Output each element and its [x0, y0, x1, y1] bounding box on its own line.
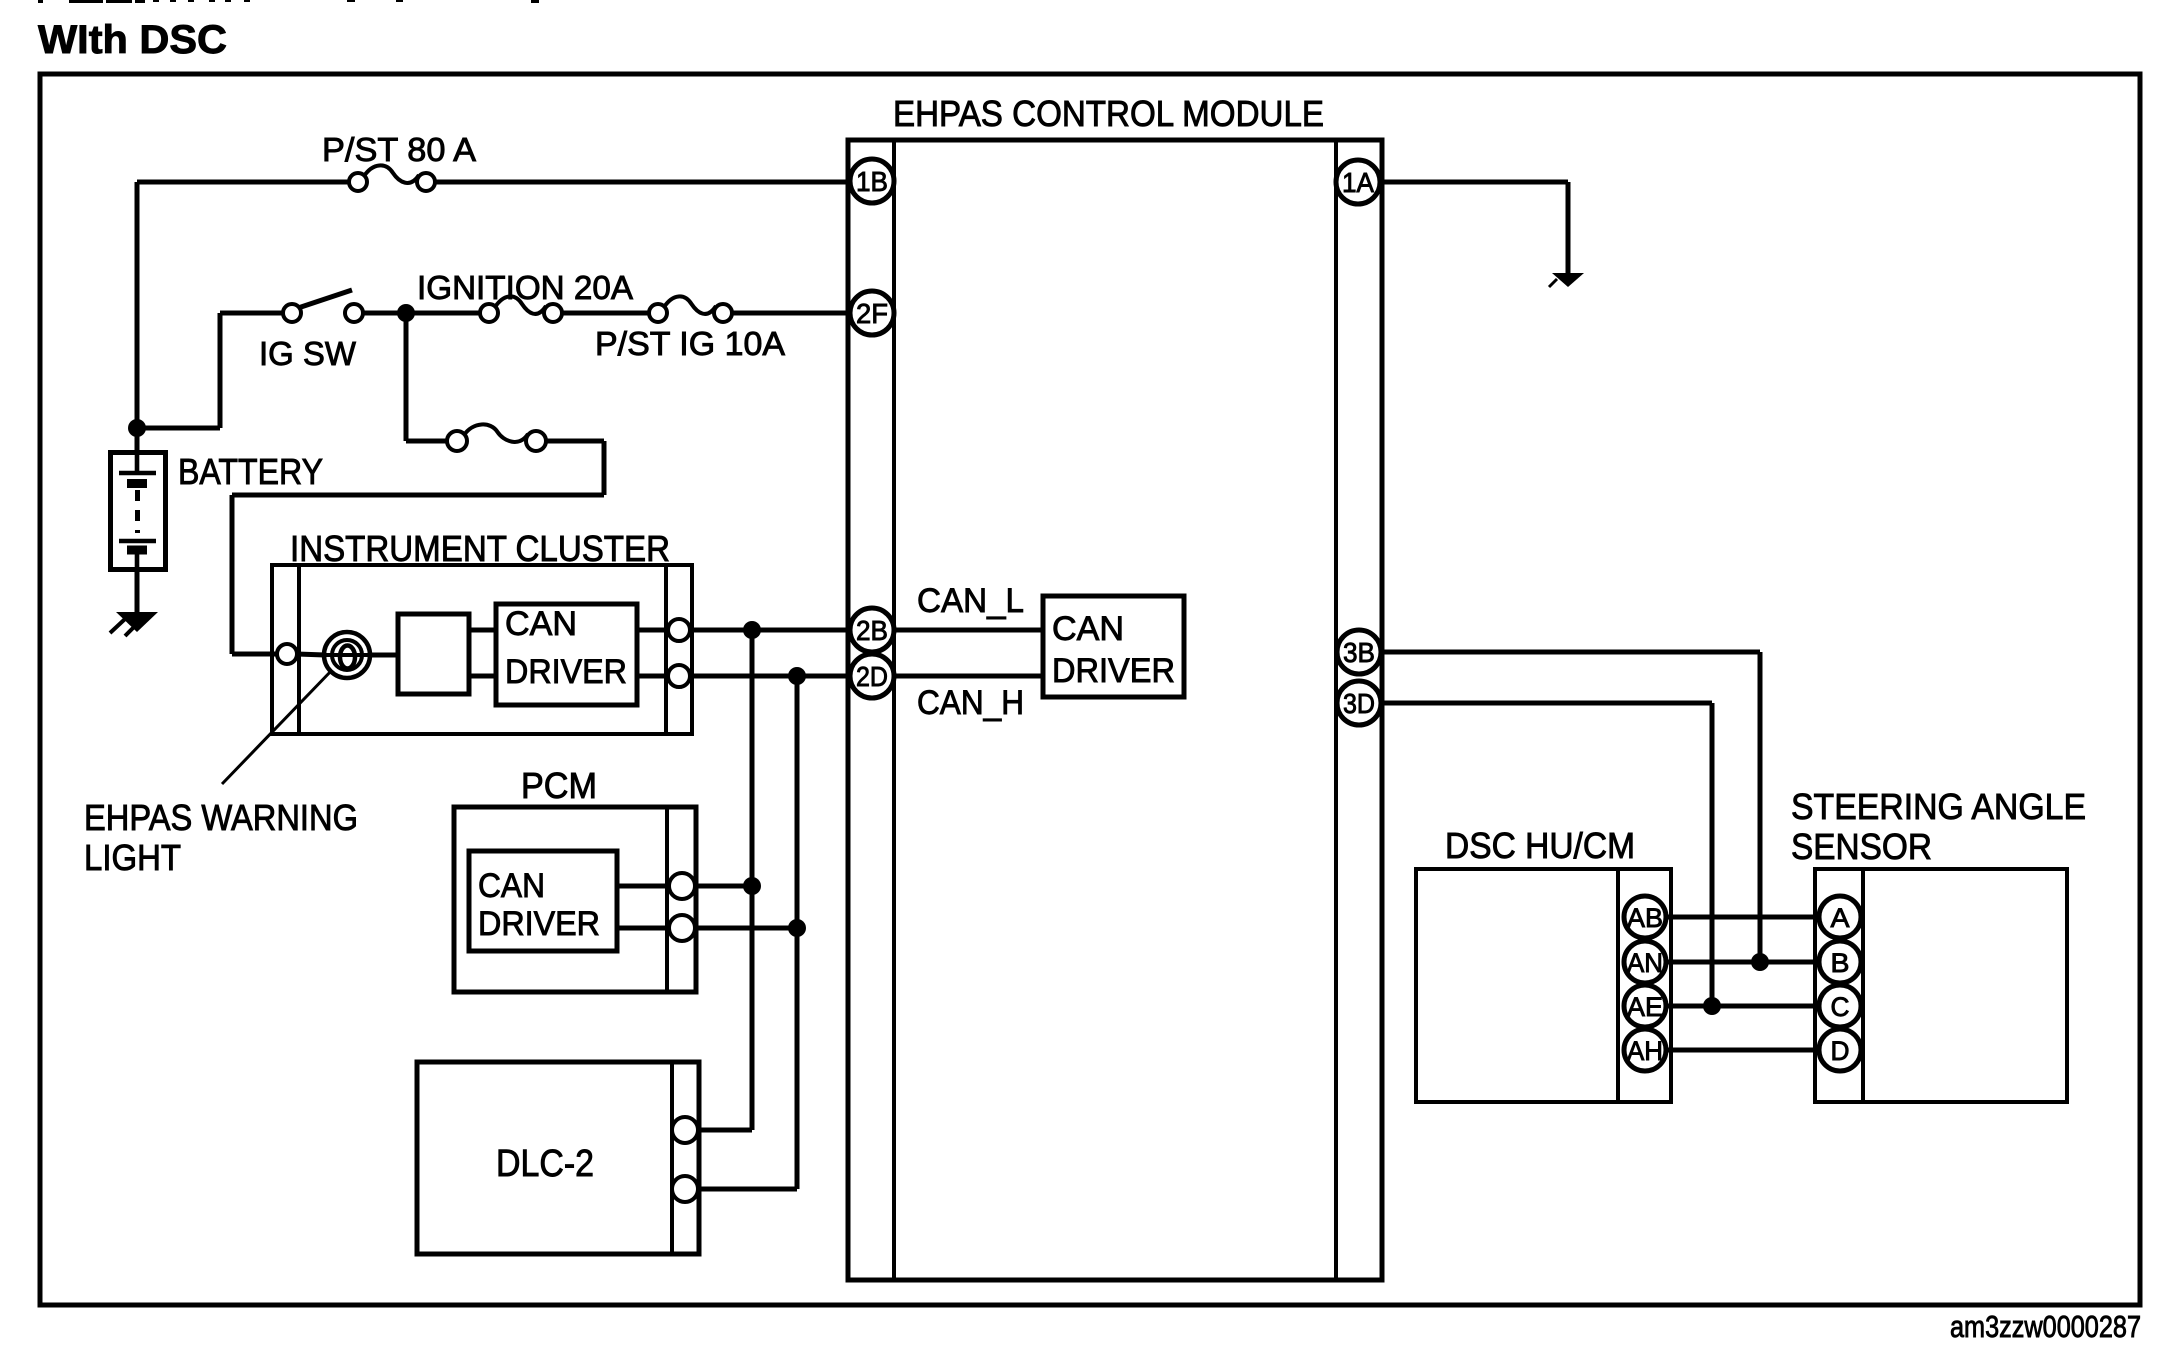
svg-text:P/ST IG 10A: P/ST IG 10A — [595, 325, 785, 362]
svg-text:BATTERY: BATTERY — [178, 451, 323, 492]
svg-text:D: D — [1831, 1036, 1850, 1066]
svg-text:EHPAS WARNING: EHPAS WARNING — [84, 797, 358, 838]
svg-text:IGNITION 20A: IGNITION 20A — [417, 269, 633, 306]
svg-text:AE: AE — [1627, 992, 1663, 1022]
svg-text:2F: 2F — [856, 298, 888, 329]
svg-text:C: C — [1831, 992, 1850, 1022]
svg-text:INSTRUMENT CLUSTER: INSTRUMENT CLUSTER — [290, 528, 670, 569]
svg-text:IG SW: IG SW — [259, 335, 357, 372]
svg-text:3D: 3D — [1343, 688, 1375, 719]
svg-text:2B: 2B — [856, 615, 888, 646]
svg-text:CAN: CAN — [1052, 610, 1124, 648]
svg-text:2D: 2D — [856, 661, 888, 692]
svg-text:1A: 1A — [1342, 167, 1374, 198]
svg-text:PCM: PCM — [521, 765, 597, 806]
svg-text:AH: AH — [1627, 1036, 1663, 1066]
svg-text:DLC-2: DLC-2 — [496, 1143, 594, 1185]
svg-text:DRIVER: DRIVER — [478, 905, 600, 943]
svg-text:AB: AB — [1627, 903, 1663, 933]
svg-text:CAN: CAN — [505, 605, 577, 643]
svg-text:DSC HU/CM: DSC HU/CM — [1445, 825, 1635, 866]
svg-text:3B: 3B — [1343, 637, 1375, 668]
svg-text:AN: AN — [1627, 948, 1663, 978]
svg-text:A: A — [1831, 903, 1850, 933]
svg-text:P/ST 80 A: P/ST 80 A — [322, 131, 476, 168]
svg-text:CAN_L: CAN_L — [917, 582, 1024, 620]
svg-text:EHPAS CONTROL MODULE: EHPAS CONTROL MODULE — [893, 93, 1324, 134]
svg-text:B: B — [1831, 948, 1850, 978]
svg-text:DRIVER: DRIVER — [1052, 652, 1175, 690]
svg-text:WIth DSC: WIth DSC — [38, 18, 227, 62]
svg-text:am3zzw0000287: am3zzw0000287 — [1950, 1309, 2141, 1344]
svg-text:STEERING ANGLE: STEERING ANGLE — [1791, 786, 2086, 827]
svg-text:SENSOR: SENSOR — [1791, 826, 1932, 867]
svg-text:CAN_H: CAN_H — [917, 684, 1024, 722]
svg-text:CAN: CAN — [478, 867, 545, 905]
svg-text:LIGHT: LIGHT — [84, 837, 181, 878]
svg-text:DRIVER: DRIVER — [505, 653, 627, 691]
svg-text:1B: 1B — [856, 166, 888, 197]
